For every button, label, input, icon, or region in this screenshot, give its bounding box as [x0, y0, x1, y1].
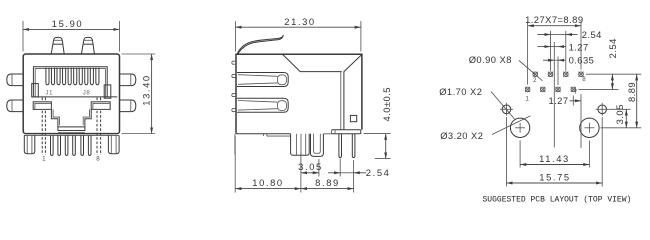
right latch bump upper: [119, 74, 135, 86]
hole5 extension: [557, 57, 559, 86]
small holes lower row (1,3,5,7): [525, 87, 576, 92]
svg-text:8.89: 8.89: [315, 177, 340, 188]
row extension right lower: [579, 88, 619, 90]
svg-text:8: 8: [582, 76, 586, 83]
dimension 8.89: [301, 160, 354, 193]
dimension 0.635: [543, 55, 594, 66]
svg-text:2.54: 2.54: [366, 167, 391, 178]
hole6 extension: [565, 31, 567, 71]
svg-text:4.0±0.5: 4.0±0.5: [381, 87, 392, 121]
svg-text:J1: J1: [46, 91, 54, 97]
svg-text:1: 1: [525, 95, 529, 102]
side body outline: [236, 54, 362, 134]
svg-text:1.27X7=8.89: 1.27X7=8.89: [525, 14, 583, 25]
right contact window: [104, 85, 111, 98]
hole4 extension: [550, 31, 552, 71]
svg-text:Ø1.70 X2: Ø1.70 X2: [439, 86, 482, 97]
svg-text:Ø0.90 X8: Ø0.90 X8: [469, 54, 512, 65]
top post left: [51, 37, 64, 54]
bottom right ledge: [332, 130, 361, 134]
centerline: [553, 42, 555, 148]
left shield leg: [24, 135, 35, 153]
pin 2: [51, 135, 54, 155]
dimension 2.54: [328, 159, 390, 179]
latch window: [58, 127, 85, 131]
svg-text:2.54: 2.54: [607, 38, 618, 58]
dimension 1.27 top: [538, 41, 589, 52]
svg-text:21.30: 21.30: [284, 16, 315, 27]
svg-text:13.40: 13.40: [141, 74, 152, 105]
bottom inner edge: [24, 134, 119, 136]
svg-text:2: 2: [533, 77, 537, 84]
cavity outline outer: [33, 67, 107, 97]
dimension 4.0±0.5: [364, 87, 393, 158]
svg-text:3.05: 3.05: [614, 104, 625, 124]
svg-text:1.27: 1.27: [548, 95, 568, 106]
svg-text:2.54: 2.54: [582, 29, 602, 40]
label Ø0.90 X8 with leader: [469, 54, 543, 81]
label Ø1.70 X2 with leader: [439, 86, 514, 119]
Ø1.70 hole right: [596, 103, 609, 116]
right step block: [91, 102, 110, 110]
pin 4: [65, 135, 68, 155]
svg-text:7: 7: [574, 89, 578, 96]
side pin left: [339, 134, 342, 158]
inner shield verticals: [341, 72, 344, 130]
side pin right: [352, 134, 355, 158]
top post right: [81, 37, 94, 54]
row extension right upper: [586, 73, 641, 75]
dimension 13.40: [122, 54, 156, 134]
pin 7: [88, 135, 91, 155]
latch spring curve: [237, 35, 283, 54]
pin 1 (dashed hidden): [42, 98, 45, 156]
pin 5: [73, 135, 76, 155]
left latch bump lower: [7, 100, 23, 112]
inner top chamfer: [283, 54, 362, 72]
side slot upper: [237, 73, 288, 87]
svg-text:0.635: 0.635: [569, 55, 595, 66]
svg-text:8: 8: [96, 156, 100, 163]
bottom contact block: [291, 134, 310, 155]
pin 6: [81, 135, 84, 155]
cavity outline inner: [35, 69, 105, 97]
dimension 15.90: [23, 18, 120, 52]
small holes upper row (2,4,6,8): [533, 72, 584, 77]
svg-text:1.27: 1.27: [569, 41, 589, 52]
left edge latch nubs: [232, 61, 236, 111]
right shield leg: [108, 135, 119, 153]
center latch notch outer: [51, 109, 91, 127]
Ø3.20 hole left: [510, 118, 529, 137]
dimension 21.30: [235, 16, 361, 51]
Ø1.70 hole left: [500, 103, 513, 116]
bottom edge and step: [235, 134, 291, 155]
left latch bump upper: [7, 74, 23, 86]
cavity ledge line: [32, 96, 117, 98]
svg-text:8.89: 8.89: [626, 82, 637, 102]
dimension 1.27 bottom: [548, 94, 581, 148]
dimension 2.54 vertical: [607, 38, 618, 89]
right latch bump lower: [119, 100, 135, 112]
svg-text:11.43: 11.43: [539, 153, 570, 164]
dimension 3.05: [298, 159, 323, 176]
dimension 10.80: [235, 136, 301, 193]
Ø3.20 hole right: [580, 118, 599, 137]
square hole: [350, 115, 356, 121]
side slot lower: [237, 98, 288, 112]
svg-text:SUGGESTED PCB LAYOUT (TOP VIEW: SUGGESTED PCB LAYOUT (TOP VIEW): [483, 196, 632, 205]
dimension 1.27X7=8.89: [525, 14, 583, 85]
left contact window: [32, 84, 39, 97]
dimension 3.05 vertical: [609, 104, 631, 128]
dimension 8.89 vertical: [601, 74, 642, 128]
dimension 11.43: [520, 141, 589, 168]
center latch notch inner: [53, 109, 89, 125]
pin 3: [58, 135, 61, 155]
svg-text:3.05: 3.05: [298, 161, 323, 172]
left step block: [33, 102, 51, 110]
svg-text:J8: J8: [83, 91, 91, 97]
svg-text:Ø3.20 X2: Ø3.20 X2: [440, 130, 483, 141]
svg-text:15.90: 15.90: [52, 18, 83, 29]
contact comb teeth: [46, 68, 99, 85]
pin 8 (dashed hidden): [97, 98, 101, 156]
svg-text:15.75: 15.75: [539, 172, 570, 183]
svg-text:1: 1: [42, 156, 46, 163]
label Ø3.20 X2 with leader: [440, 116, 530, 141]
dimension 2.54 top: [538, 29, 602, 40]
dimension 15.75: [507, 117, 603, 187]
front body outline: [23, 54, 119, 134]
bottom hook pin: [311, 134, 332, 157]
svg-text:10.80: 10.80: [252, 177, 283, 188]
